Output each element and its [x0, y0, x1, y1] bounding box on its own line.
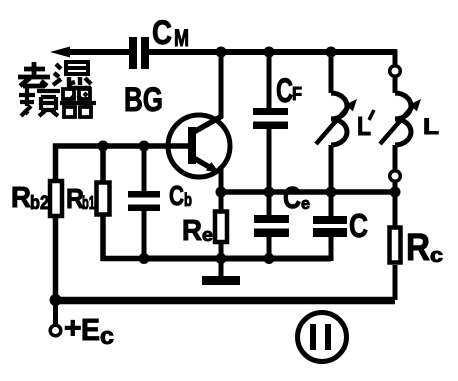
wire: top bus left segment	[66, 49, 130, 55]
figure number 11	[298, 313, 347, 362]
svg-text:F: F	[292, 84, 302, 104]
capacitor CF	[253, 52, 302, 215]
node: CF-Ce / emitter bus junction	[264, 187, 275, 198]
node: L'-C / emitter bus junction	[326, 187, 337, 198]
node: left rail / bottom bus junction	[50, 294, 62, 306]
wire: left rail	[53, 144, 59, 300]
inductor L	[380, 52, 439, 192]
svg-text:M: M	[174, 25, 189, 52]
svg-text:C: C	[169, 180, 184, 211]
wire: top bus right segment	[149, 49, 398, 55]
transistor BG	[124, 81, 230, 177]
resistor Rb1	[66, 183, 110, 215]
terminal +Ec	[50, 312, 114, 350]
svg-text:b1: b1	[82, 193, 95, 213]
node: CF / top bus junction	[264, 47, 275, 58]
svg-text:C: C	[283, 180, 301, 215]
resistor Re	[182, 192, 227, 259]
svg-text:c: c	[100, 323, 114, 350]
svg-text:C: C	[276, 72, 293, 110]
node: emitter junction	[216, 187, 227, 198]
svg-text:b: b	[184, 190, 192, 210]
svg-text:R: R	[406, 227, 430, 269]
wire: Rb1 branch vertical	[103, 146, 144, 259]
svg-text:R: R	[182, 215, 202, 247]
svg-text:C: C	[152, 14, 172, 52]
node: Rb1 / base junction	[98, 141, 109, 152]
wire: emitter vertical	[219, 166, 224, 192]
svg-text:L: L	[423, 114, 439, 139]
wire: +Ec stub	[53, 299, 58, 326]
node: L' / top bus junction	[326, 47, 337, 58]
capacitor CM	[129, 14, 189, 69]
node: Ce / lower bus junction	[264, 253, 275, 264]
resistor Rb2	[11, 181, 62, 216]
node: Cb / base junction	[139, 141, 150, 152]
svg-text:e: e	[202, 225, 213, 245]
svg-text:e: e	[301, 194, 310, 213]
ground	[202, 258, 240, 285]
svg-text:C: C	[349, 207, 368, 244]
svg-text:E: E	[81, 312, 100, 347]
text: 去混 (to mixer, line 1)	[18, 62, 91, 88]
svg-text:+: +	[64, 312, 82, 345]
wire: base bus	[53, 143, 188, 149]
svg-text:R: R	[11, 182, 31, 214]
wire: collector vertical	[219, 52, 224, 118]
svg-text:L: L	[357, 111, 371, 141]
capacitor C	[313, 192, 368, 261]
node: Re / lower bus junction	[216, 253, 227, 264]
resistor Rc	[390, 192, 444, 300]
wire: lower bus (Rb1/Cb/Re/Ce/C)	[141, 256, 331, 262]
inductor L'	[316, 52, 374, 192]
wire: emitter bus (mid)	[221, 189, 395, 195]
arrow: output to mixer	[50, 47, 70, 58]
wire: bottom bus	[56, 297, 396, 305]
capacitor Cb	[128, 146, 192, 259]
svg-text:c: c	[430, 245, 443, 267]
capacitor Ce	[254, 180, 310, 259]
svg-text:BG: BG	[124, 81, 163, 119]
node: Cb / lower bus junction	[139, 253, 150, 264]
node: collector / top bus junction	[216, 47, 227, 58]
svg-text:b2: b2	[30, 193, 49, 214]
node: L / Rc junction	[390, 187, 401, 198]
text: 频器 (to mixer, line 2)	[19, 88, 96, 117]
